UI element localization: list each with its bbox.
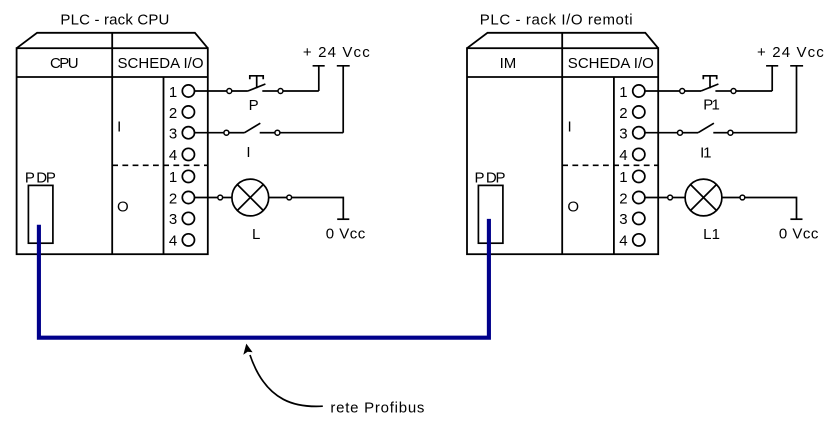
contact circle L1 left xyxy=(668,195,673,200)
annotation arrow head xyxy=(243,344,252,355)
svg-text:2: 2 xyxy=(619,105,627,122)
+24Vcc terminal 2 left xyxy=(337,66,350,133)
svg-text:SCHEDA I/O: SCHEDA I/O xyxy=(568,55,654,72)
svg-text:4: 4 xyxy=(169,233,177,250)
svg-text:O: O xyxy=(567,198,579,215)
svg-text:0 Vcc: 0 Vcc xyxy=(326,225,366,242)
pushbutton P actuator xyxy=(250,76,263,80)
contact circle P1 right xyxy=(731,89,736,94)
svg-text:P1: P1 xyxy=(703,97,720,114)
svg-text:P DP: P DP xyxy=(25,170,56,187)
contact circle L right xyxy=(287,195,292,200)
contact circle I1 right xyxy=(728,130,733,135)
rack remoto divider xyxy=(561,33,563,254)
switch I1 blade xyxy=(698,123,714,133)
wire stub P1 left xyxy=(685,90,701,92)
svg-text:P DP: P DP xyxy=(475,170,506,187)
rack remoto header line xyxy=(467,76,658,78)
terminal I4 left xyxy=(182,148,194,160)
wire terminal I1 to pushbutton P1 xyxy=(645,90,680,92)
svg-text:3: 3 xyxy=(169,211,177,228)
svg-text:3: 3 xyxy=(619,126,627,143)
svg-text:1: 1 xyxy=(619,84,627,101)
svg-text:2: 2 xyxy=(169,105,177,122)
svg-text:2: 2 xyxy=(619,190,627,207)
svg-text:+ 24 Vcc: + 24 Vcc xyxy=(303,44,370,61)
rack remoto terminal column line xyxy=(613,77,615,254)
wire stub P left xyxy=(232,90,248,92)
svg-text:2: 2 xyxy=(169,190,177,207)
svg-text:PLC - rack CPU: PLC - rack CPU xyxy=(60,11,169,28)
terminal O2 left xyxy=(182,191,194,203)
wire I to +24Vcc xyxy=(280,132,343,134)
contact circle I right xyxy=(275,130,280,135)
wire I1 to +24Vcc xyxy=(733,132,797,134)
contact circle P right xyxy=(278,89,283,94)
terminal I1 right xyxy=(633,85,645,97)
wire stub lamp left xyxy=(223,197,232,199)
terminal I2 right xyxy=(633,106,645,118)
svg-text:3: 3 xyxy=(169,126,177,143)
terminal I1 left xyxy=(182,85,194,97)
pushbutton P1 blade xyxy=(701,84,718,91)
switch I blade xyxy=(245,123,261,133)
svg-text:rete Profibus: rete Profibus xyxy=(330,400,424,417)
wire stub P right xyxy=(262,90,278,92)
rack CPU terminal column line xyxy=(163,77,165,254)
svg-text:PLC - rack I/O remoti: PLC - rack I/O remoti xyxy=(480,11,633,28)
wire stub lamp L1 left xyxy=(673,197,686,199)
connector P DP right xyxy=(478,185,503,243)
wire terminal I1 to pushbutton P xyxy=(195,90,227,92)
svg-text:I: I xyxy=(117,119,121,136)
svg-text:4: 4 xyxy=(169,147,177,164)
contact circle P1 left xyxy=(680,89,685,94)
svg-text:4: 4 xyxy=(619,233,627,250)
svg-text:I: I xyxy=(568,119,572,136)
terminal O4 right xyxy=(633,234,645,246)
terminal O1 right xyxy=(633,170,645,182)
Profibus network cable xyxy=(39,219,489,338)
annotation arrow shaft xyxy=(250,355,323,406)
wire stub lamp L1 right xyxy=(722,197,740,199)
terminal I3 right xyxy=(633,127,645,139)
contact circle I1 left xyxy=(678,130,683,135)
svg-text:L: L xyxy=(252,226,260,243)
rack CPU front face xyxy=(17,48,208,254)
wire terminal O2 to lamp L xyxy=(195,197,218,199)
wire terminal I3 to switch I xyxy=(195,132,224,134)
svg-text:3: 3 xyxy=(619,211,627,228)
wire L1 to 0Vcc xyxy=(745,198,797,219)
wire stub P1 right xyxy=(715,90,731,92)
wire stub I left xyxy=(229,132,245,134)
connector P DP left xyxy=(28,185,53,243)
svg-text:0 Vcc: 0 Vcc xyxy=(779,225,819,242)
svg-text:SCHEDA I/O: SCHEDA I/O xyxy=(118,55,204,72)
rack CPU divider xyxy=(111,33,113,254)
wire stub I right xyxy=(260,132,275,134)
terminal O4 left xyxy=(182,234,194,246)
pushbutton P blade xyxy=(248,84,266,91)
rack CPU header line xyxy=(17,76,208,78)
+24Vcc terminal 1 right xyxy=(766,66,778,91)
svg-text:CPU: CPU xyxy=(50,55,79,72)
wire P to +24Vcc xyxy=(283,90,319,92)
rack remoto dashed I/O separator xyxy=(562,164,658,166)
rack CPU dashed I/O separator xyxy=(112,164,208,166)
lamp L xyxy=(232,179,269,216)
svg-text:1: 1 xyxy=(619,169,627,186)
wire terminal O2 to lamp L1 xyxy=(645,197,668,199)
pushbutton P1 actuator xyxy=(703,76,716,80)
wire L to 0Vcc xyxy=(292,198,344,219)
svg-text:4: 4 xyxy=(619,147,627,164)
0Vcc terminal left xyxy=(337,218,349,220)
wire stub I1 right xyxy=(713,132,728,134)
wire stub lamp right xyxy=(269,197,287,199)
rack remoto front face xyxy=(467,48,658,254)
terminal I2 left xyxy=(182,106,194,118)
wire P1 to +24Vcc xyxy=(736,90,772,92)
terminal I3 left xyxy=(182,127,194,139)
contact circle L1 right xyxy=(740,195,745,200)
terminal I4 right xyxy=(633,148,645,160)
contact circle L left xyxy=(218,195,223,200)
+24Vcc terminal 2 right xyxy=(790,66,803,133)
svg-text:1: 1 xyxy=(169,84,177,101)
lamp L1 xyxy=(685,179,722,216)
wire terminal I3 to switch I1 xyxy=(645,132,678,134)
terminal O3 left xyxy=(182,212,194,224)
terminal O3 right xyxy=(633,212,645,224)
svg-text:O: O xyxy=(117,198,129,215)
svg-text:+ 24 Vcc: + 24 Vcc xyxy=(757,44,824,61)
rack CPU top face xyxy=(17,33,208,48)
terminal O2 right xyxy=(633,191,645,203)
svg-text:1: 1 xyxy=(169,169,177,186)
rack remoto top face xyxy=(467,33,658,48)
svg-text:P: P xyxy=(249,97,259,114)
+24Vcc terminal 1 left xyxy=(313,66,325,91)
terminal O1 left xyxy=(182,170,194,182)
wire stub I1 left xyxy=(683,132,699,134)
svg-text:L1: L1 xyxy=(703,226,720,243)
contact circle P left xyxy=(227,89,232,94)
svg-text:I1: I1 xyxy=(700,145,711,162)
contact circle I left xyxy=(224,130,229,135)
svg-text:IM: IM xyxy=(500,55,517,72)
svg-text:I: I xyxy=(246,144,250,161)
0Vcc terminal right xyxy=(790,218,802,220)
